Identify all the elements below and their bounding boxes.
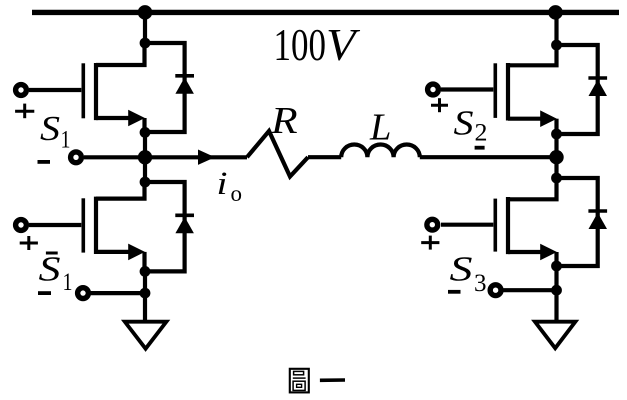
svg-text:1: 1 (61, 127, 71, 154)
caption figure one (hand-drawn CJK) (290, 369, 345, 393)
junction S3 source node (551, 261, 562, 272)
ground left (125, 322, 167, 349)
inductor L (341, 144, 420, 157)
svg-text:L: L (369, 107, 391, 149)
diode D4 (S3 body diode) (557, 178, 608, 266)
svg-text:o: o (231, 181, 243, 206)
junction S3 minus wire (551, 285, 562, 296)
svg-text:S: S (454, 104, 474, 143)
terminal S3 minus (490, 285, 501, 296)
terminal S1 minus (on output wire) (71, 152, 82, 163)
label S1bar minus (38, 291, 51, 295)
terminal S1 gate (+) (16, 85, 27, 96)
label 100V (bus voltage) (274, 20, 361, 70)
transistor S1bar (bottom-left switch) (29, 182, 145, 271)
label S2 minus (475, 146, 485, 150)
wire left leg vertical (S1bar source to ground) (143, 271, 147, 321)
terminal S3 gate (+) (427, 219, 438, 230)
wire output node left (minus terminal to leg) (84, 155, 145, 159)
resistor R (247, 131, 308, 177)
label S3 (450, 250, 487, 298)
label S3 minus (448, 290, 461, 294)
junction rail / right leg (548, 5, 563, 20)
current arrow i_o (198, 150, 215, 165)
diode D3 (S2 body diode) (557, 45, 608, 134)
svg-text:S: S (40, 109, 60, 148)
diode D2 (S1bar body diode) (145, 182, 194, 271)
wire left leg vertical (S1 source to S1bar drain, through output node) (143, 132, 147, 182)
wire resistor to inductor (308, 155, 341, 159)
svg-text:1: 1 (63, 269, 73, 296)
label S1 plus (15, 104, 34, 119)
label S3 plus (421, 236, 439, 250)
svg-text:i: i (217, 166, 228, 202)
transistor S1 (top-left switch) (29, 43, 145, 132)
junction S1bar minus wire (140, 288, 151, 299)
junction rail / left leg (138, 5, 153, 20)
wire inductor to right leg (420, 155, 557, 159)
transistor S2 (top-right switch) (441, 45, 557, 134)
junction S2 drain node (551, 40, 562, 51)
ground right (535, 322, 576, 349)
terminal S2 gate (+) (428, 84, 439, 95)
dc bus rail (100V net) (32, 10, 619, 15)
junction S1bar source node (140, 266, 151, 277)
wire left leg vertical (rail to S1 drain) (143, 12, 147, 43)
junction S2 source node (551, 129, 562, 140)
label S1bar (39, 250, 73, 296)
terminal S1bar gate (+) (16, 220, 27, 231)
wire S3 minus to leg (503, 288, 556, 292)
junction output left (138, 150, 152, 164)
junction S1bar drain node (140, 177, 151, 188)
junction S3 drain node (551, 173, 562, 184)
diode D1 (S1 body diode) (145, 43, 194, 132)
svg-text:S: S (450, 250, 473, 289)
label S1 (40, 109, 71, 154)
svg-text:2: 2 (475, 120, 488, 147)
svg-text:100: 100 (274, 20, 327, 70)
svg-text:V: V (326, 20, 360, 70)
junction S1 drain node (140, 38, 151, 49)
wire S1bar minus to leg (91, 291, 146, 295)
wire right leg vertical (S3 source to ground) (554, 266, 558, 322)
label S1bar plus (20, 236, 38, 250)
label S2 plus (431, 98, 448, 112)
label S1 minus (38, 160, 51, 164)
terminal S1bar minus (78, 288, 89, 299)
wire right leg vertical (S2 source to S3 drain, through output node) (554, 134, 558, 178)
svg-text:R: R (270, 100, 298, 142)
wire output left to resistor (145, 155, 247, 159)
svg-text:3: 3 (474, 270, 487, 297)
label i_o (217, 166, 243, 206)
wire right leg vertical (rail to S2 drain) (554, 12, 558, 45)
junction S1 source node (140, 127, 151, 138)
junction output right (549, 150, 563, 164)
svg-text:S: S (39, 250, 61, 289)
label S2 (454, 104, 488, 147)
transistor S3 (bottom-right switch) (441, 178, 557, 266)
